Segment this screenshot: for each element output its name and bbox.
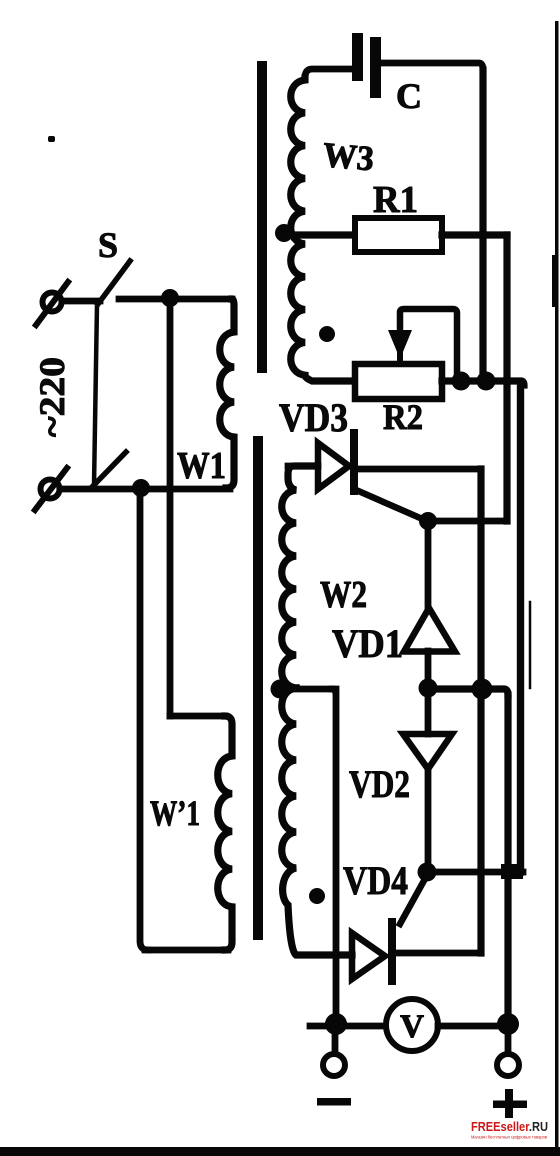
switch S lower blade bbox=[91, 452, 126, 488]
capacitor C plates bbox=[352, 33, 363, 81]
svg-text:VD1: VD1 bbox=[332, 621, 403, 666]
thyristor VD4 triangle bbox=[352, 933, 385, 979]
svg-text:R2: R2 bbox=[383, 397, 423, 437]
svg-text:VD3: VD3 bbox=[279, 395, 348, 440]
node dot lower switch row bbox=[132, 479, 150, 497]
node dot VD4 gate bbox=[418, 863, 437, 882]
thyristor VD4 cathode bar bbox=[388, 922, 396, 981]
svg-text:S: S bbox=[98, 225, 118, 265]
wire rail down to plus node bbox=[504, 695, 511, 1022]
junction blob rail merge bbox=[501, 864, 523, 879]
wire plus node to terminal bbox=[505, 1024, 512, 1053]
thyristor VD3 cathode bar bbox=[350, 433, 358, 491]
svg-text:FREEseller.RU: FREEseller.RU bbox=[471, 1119, 548, 1134]
winding W3 bbox=[291, 78, 355, 381]
thyristor VD3 triangle bbox=[318, 443, 349, 489]
winding W2 bbox=[282, 466, 316, 688]
frame right border thick patch bbox=[552, 255, 558, 307]
wire VD3 cathode right bbox=[358, 466, 477, 473]
thyristor VD3 gate bbox=[356, 490, 427, 521]
wire VD1 to junction bbox=[425, 651, 432, 688]
speck artifact top-left bbox=[48, 136, 55, 142]
svg-text:W2: W2 bbox=[320, 574, 367, 616]
node dot plus bbox=[497, 1013, 519, 1035]
svg-text:W3: W3 bbox=[321, 135, 375, 178]
transformer core upper bbox=[257, 61, 267, 373]
wire rail down from R2 junction bbox=[517, 385, 524, 872]
node dot W3 tap to R1 bbox=[275, 224, 293, 242]
voltmeter V bbox=[386, 999, 438, 1051]
plus sign bbox=[493, 1101, 527, 1109]
node dot R2 junction left bbox=[452, 372, 471, 391]
svg-text:W1: W1 bbox=[177, 445, 226, 487]
artifact thin line right bbox=[529, 602, 532, 688]
svg-text:C: C bbox=[396, 76, 422, 116]
node dot R2 junction right bbox=[477, 372, 496, 391]
polarity dot W3 bbox=[319, 326, 335, 342]
svg-text:V: V bbox=[400, 1009, 424, 1045]
wire VD1 junction horizontal bbox=[428, 689, 508, 695]
svg-text:Магазин бесплатных цифровых то: Магазин бесплатных цифровых товаров bbox=[471, 1135, 547, 1140]
diode VD2 bbox=[403, 734, 452, 769]
potentiometer R2 wiper arrow bbox=[388, 330, 412, 359]
wire junction to VD2 bbox=[425, 689, 432, 734]
wire VD4 cathode to rail corner bbox=[396, 950, 481, 957]
wire VD2 to VD4 gate dot bbox=[425, 769, 432, 872]
wire left rail down bbox=[140, 489, 148, 950]
frame bottom bar bbox=[0, 1147, 560, 1156]
node dot upper (W'1 tap) bbox=[161, 289, 179, 307]
capacitor right wire bbox=[381, 63, 483, 70]
wire gate line horizontal bbox=[428, 518, 507, 525]
node dot gate line bbox=[419, 512, 437, 530]
wire gate dot down to VD1 bbox=[425, 521, 432, 608]
potentiometer R2 wiper wire bbox=[400, 309, 457, 372]
resistor R1 bbox=[355, 218, 442, 252]
capacitor C left wire bbox=[305, 69, 352, 78]
svg-text:R1: R1 bbox=[373, 179, 418, 221]
wire R1 down to gate line bbox=[503, 235, 510, 521]
frame right border line bbox=[555, 21, 559, 1147]
winding W'1 bbox=[218, 716, 232, 950]
wire switch to W1 top bbox=[119, 296, 232, 303]
node dot W2 center tap bbox=[271, 680, 290, 699]
wire W'1 bottom horizontal bbox=[145, 947, 228, 954]
wire R2 right to rail corner bbox=[442, 381, 524, 385]
thyristor VD4 gate bbox=[400, 877, 426, 924]
wire W2 top to VD3 anode bbox=[288, 463, 318, 470]
wire W3 tap to R1 bbox=[284, 231, 355, 238]
wire W2 tap down to minus node bbox=[332, 689, 336, 1022]
wire R1 right bbox=[442, 231, 507, 238]
node dot VD1 junction right bbox=[472, 679, 493, 700]
transformer core lower bbox=[253, 436, 263, 940]
minus sign bbox=[317, 1098, 351, 1106]
winding W1 bbox=[220, 299, 234, 488]
resistor R2 bbox=[355, 364, 442, 399]
wire meter to plus node bbox=[438, 1023, 500, 1030]
terminal upper bbox=[43, 293, 62, 312]
terminal plus bbox=[497, 1054, 519, 1076]
wire gate dot to rail bbox=[427, 869, 523, 876]
wire lower switch row to W1 bottom bbox=[60, 486, 230, 493]
wire stub left of minus node bbox=[310, 1023, 386, 1030]
switch link bbox=[94, 304, 97, 486]
terminal minus bbox=[323, 1054, 345, 1076]
wire down to W'1 top bbox=[167, 299, 174, 716]
node dot minus bbox=[325, 1013, 347, 1035]
svg-text:VD4: VD4 bbox=[343, 858, 408, 903]
wire W2 tap horizontal bbox=[280, 686, 332, 693]
terminal lower bbox=[41, 480, 60, 499]
wire cap down to R2 junction bbox=[479, 70, 486, 376]
diode VD1 bbox=[404, 608, 455, 652]
node dot VD1 junction bbox=[419, 679, 438, 698]
svg-text:~220: ~220 bbox=[32, 357, 72, 437]
polarity dot W2 bbox=[309, 888, 325, 904]
svg-text:VD2: VD2 bbox=[349, 763, 410, 806]
svg-text:W’1: W’1 bbox=[150, 793, 200, 833]
wire W'1 top horizontal bbox=[170, 713, 225, 720]
wire upper terminal to switch pivot bbox=[62, 298, 100, 305]
switch S upper blade bbox=[98, 261, 130, 304]
wire minus node to terminal bbox=[332, 1024, 339, 1053]
wire VD3 cathode down rail bbox=[477, 469, 484, 953]
